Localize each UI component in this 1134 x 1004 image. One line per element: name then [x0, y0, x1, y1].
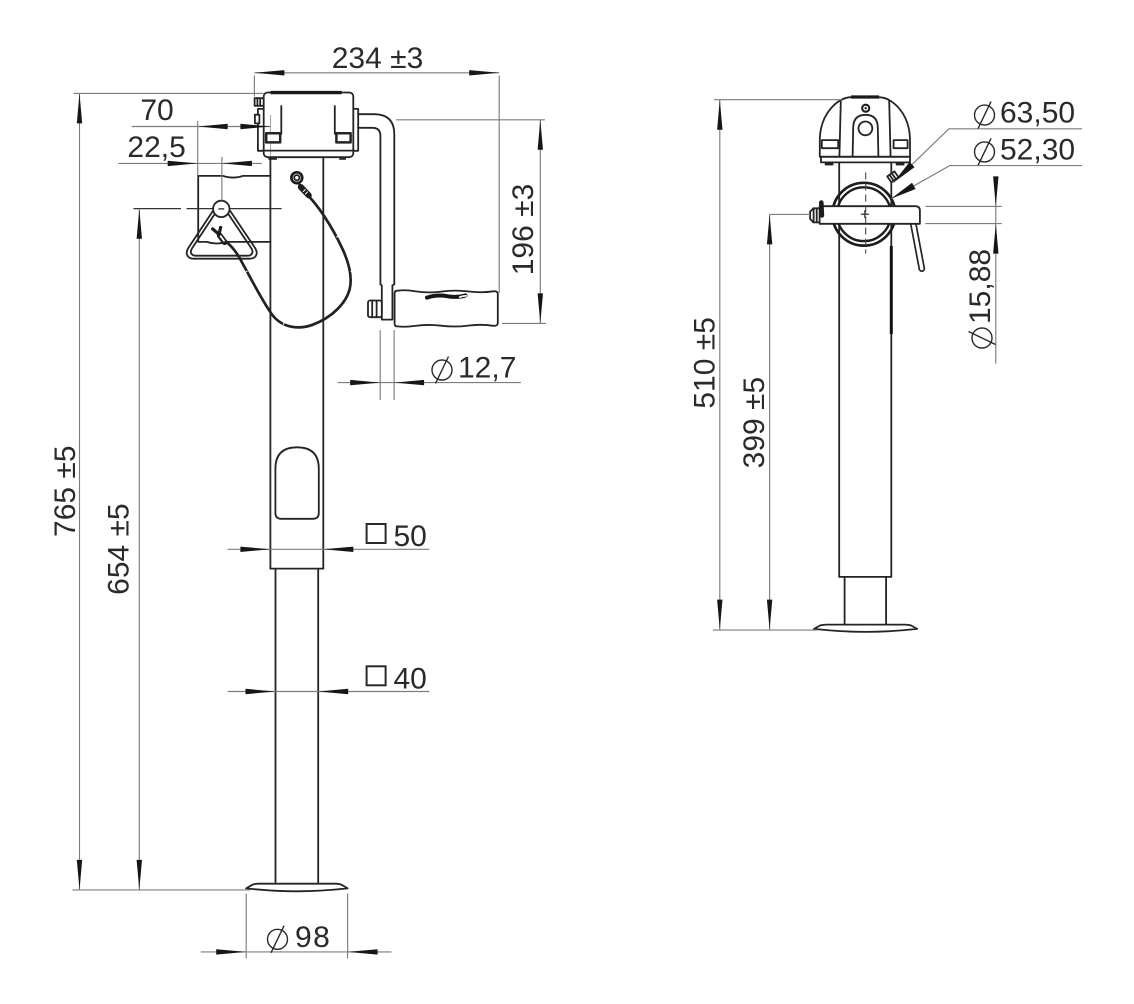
- dim sq40 line: [228, 691, 430, 693]
- gearbox left tab: [255, 115, 260, 124]
- svg-text:510 ±5: 510 ±5: [689, 317, 722, 409]
- dim 399 extension: [770, 213, 811, 215]
- svg-text:40: 40: [394, 662, 427, 695]
- dim 510 line: [719, 100, 721, 630]
- pin bar: [820, 206, 920, 224]
- dim 98 line: [201, 951, 392, 953]
- outer tube right view: [838, 163, 840, 577]
- dim 510 text: [689, 317, 722, 409]
- dome top bolt: [861, 104, 870, 113]
- bolt on gearbox top-left: [255, 98, 264, 106]
- crank lower plate: [380, 284, 394, 319]
- gearbox window left: [266, 133, 280, 142]
- dome tab left: [822, 140, 838, 148]
- svg-text:12,7: 12,7: [458, 352, 516, 385]
- dim 15,88 line: [995, 176, 997, 363]
- dim 234 extension lines: [253, 76, 255, 97]
- pin circle: [213, 201, 229, 217]
- svg-text:15,88: 15,88: [964, 249, 997, 324]
- cable anchor: [291, 172, 302, 183]
- svg-text:50: 50: [394, 520, 427, 553]
- dim 654 line: [138, 209, 140, 890]
- gearbox window right: [336, 133, 350, 142]
- svg-text:98: 98: [295, 921, 331, 954]
- svg-text:63,50: 63,50: [1000, 97, 1075, 130]
- svg-text:765 ±5: 765 ±5: [49, 445, 82, 537]
- gearbox top seam: [271, 91, 342, 94]
- cable hook clip: [213, 227, 225, 242]
- triangle pull handle inner: [191, 212, 253, 255]
- dim 510 extension: [714, 99, 842, 101]
- gearbox inner bottom line: [264, 150, 354, 152]
- dome flange: [821, 157, 910, 163]
- dim 765 extensions: [74, 92, 264, 94]
- gearbox housing: [264, 93, 354, 158]
- dome circle hole: [859, 121, 873, 135]
- ring center cross: [861, 213, 869, 215]
- mounting bracket: [198, 176, 270, 244]
- dim 52,30 symbol: [975, 142, 995, 162]
- dome top seam: [851, 95, 879, 98]
- wire: hidden tube edge behind gearbox: [270, 115, 272, 157]
- lever handle: [911, 211, 922, 269]
- dim 22,5 extension: [221, 157, 223, 201]
- dome facet lines: [839, 101, 840, 157]
- dim 22,5 line: [118, 162, 261, 164]
- dim 765 text: [49, 445, 82, 537]
- ground line right view: [713, 629, 818, 631]
- dim 63,50 symbol: [975, 105, 995, 125]
- gearbox feet marks: [268, 157, 277, 160]
- pin hex head: [810, 208, 820, 222]
- cable ferrule: [301, 187, 309, 195]
- svg-text:234 ±3: 234 ±3: [332, 42, 424, 75]
- dim 196 line: [539, 120, 541, 324]
- triangle pull handle outer: [187, 211, 257, 259]
- svg-text:399 ±5: 399 ±5: [738, 377, 771, 469]
- dim 98 symbol: [268, 929, 288, 949]
- crank handle grip: [395, 290, 498, 327]
- gearbox rib lines: [280, 106, 282, 134]
- dim 12,7 symbol: [432, 360, 452, 380]
- safety cable: [225, 195, 350, 328]
- leader 63,50: [893, 129, 1082, 183]
- foot plate right view: [814, 625, 917, 632]
- dim 70 line: [132, 126, 271, 128]
- svg-text:22,5: 22,5: [127, 131, 185, 164]
- dim 399 text: [738, 377, 771, 469]
- leader 52,30: [891, 166, 1082, 199]
- dim 12,7 line: [338, 382, 521, 384]
- clamp ring outer: [833, 183, 896, 246]
- svg-text:196 ±3: 196 ±3: [507, 184, 540, 276]
- dome arch: [853, 115, 879, 157]
- dim 98 extensions: [245, 894, 247, 959]
- inner tube right view: [844, 577, 846, 625]
- dim 196 text: [507, 184, 540, 276]
- clamp ring inner: [837, 187, 891, 241]
- pin safety clip: [819, 203, 824, 216]
- outer tube bottom edge: [839, 576, 891, 578]
- svg-text:70: 70: [140, 94, 173, 127]
- foot plate: [246, 884, 347, 892]
- outer tube (50mm): [269, 157, 271, 568]
- dim 15,88 extensions: [925, 205, 1001, 207]
- ring centerline dashed: [865, 173, 867, 254]
- dim 12,7 extensions: [379, 330, 381, 400]
- pin centerline: [134, 208, 182, 210]
- dim 399 line: [769, 214, 771, 629]
- dim 70 extension: [197, 121, 199, 176]
- gearbox back plate: [258, 109, 358, 151]
- dim 15,88 text: [964, 249, 997, 348]
- dome head: [820, 97, 910, 157]
- slot in outer tube: [275, 447, 318, 519]
- dim 234 line: [254, 72, 499, 74]
- grip seam mark: [427, 295, 466, 297]
- svg-text:52,30: 52,30: [1000, 133, 1075, 166]
- dim sq40 symbol: [367, 666, 386, 685]
- flange feet marks: [825, 162, 834, 165]
- dim 196 extensions: [396, 119, 545, 121]
- dim 765 line: [79, 93, 81, 890]
- crank rod inner: [358, 128, 380, 284]
- dim 654 text: [103, 503, 136, 595]
- dome tab right: [894, 140, 908, 148]
- clamp screw above ring: [887, 171, 898, 182]
- crank bolt: [368, 301, 382, 318]
- dim sq50 line: [228, 548, 430, 550]
- crank rod outer: [358, 114, 394, 284]
- dim sq50 symbol: [367, 524, 386, 543]
- svg-text:654 ±5: 654 ±5: [103, 503, 136, 595]
- inner tube (40mm): [275, 569, 277, 883]
- tube thick edge segment: [890, 246, 893, 334]
